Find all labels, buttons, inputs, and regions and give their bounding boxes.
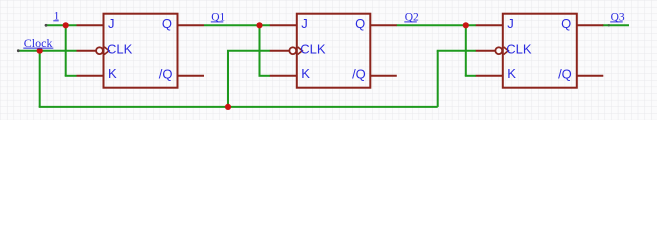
U3 pin Q output <box>577 24 604 26</box>
U1 pin CLK inversion bubble <box>96 47 103 54</box>
net label 1 <box>53 11 59 23</box>
U2 pin Q output <box>370 24 397 26</box>
U3 pin CLK inversion bubble <box>495 47 502 54</box>
wire Clock vertical to bottom bus <box>39 51 41 107</box>
U2 pin CLK input line <box>270 50 290 52</box>
JK flip-flop U1 body <box>77 14 205 88</box>
junction dot Q1 <box>256 22 262 28</box>
JK flip-flop U3 body <box>476 14 604 88</box>
wire Q1 to K2 <box>259 75 271 77</box>
JK flip-flop U2 body <box>270 14 397 88</box>
U3 body outline <box>503 14 577 88</box>
wire Q2 to J3 <box>397 24 477 26</box>
junction dot Clock at CLK1 <box>37 48 43 54</box>
junction dot Q2 <box>463 22 469 28</box>
junction dot Clock bus <box>225 104 231 110</box>
net label Q2 <box>404 11 419 23</box>
svg-text:Q: Q <box>162 16 172 31</box>
wire Q3 output stub <box>603 24 630 26</box>
wire Q2 to K3 <box>465 75 476 77</box>
svg-text:CLK: CLK <box>300 42 326 57</box>
U1 pin /Q output <box>178 75 205 77</box>
wire Q1 vertical drop to K2 row <box>259 25 261 76</box>
svg-text:/Q: /Q <box>352 66 366 81</box>
wire to CLK2 pin <box>227 50 270 52</box>
wire Clock bus riser to CLK3 <box>437 51 439 107</box>
svg-text:K: K <box>108 66 117 81</box>
U1 pin J input <box>77 24 104 26</box>
U1 pin CLK input line <box>77 50 97 52</box>
U2 pin /Q output <box>370 75 397 77</box>
U1 body outline <box>104 14 178 88</box>
net label Q1 <box>211 11 226 23</box>
wire end marker net 1 <box>45 24 48 27</box>
wire net 1 to J1 <box>46 24 77 26</box>
net label Q3 <box>610 11 625 23</box>
wire Q1 to J2 <box>204 24 270 26</box>
svg-text:J: J <box>108 16 115 31</box>
U2 pin K input <box>270 75 297 77</box>
svg-text:J: J <box>507 16 514 31</box>
net label Clock <box>23 36 53 50</box>
wire end marker Clock <box>17 49 20 52</box>
svg-text:CLK: CLK <box>506 42 532 57</box>
svg-text:/Q: /Q <box>159 66 173 81</box>
U2 clock edge triangle <box>298 47 303 55</box>
wire Clock bus riser to CLK2 <box>227 51 229 107</box>
svg-text:J: J <box>301 16 308 31</box>
junction dot net 1 <box>63 22 69 28</box>
wire Clock bottom bus <box>39 106 438 108</box>
svg-text:/Q: /Q <box>558 66 572 81</box>
wire Clock to CLK1 <box>18 50 76 52</box>
svg-text:K: K <box>301 66 310 81</box>
wire to CLK3 pin <box>437 50 476 52</box>
U3 clock edge triangle <box>504 47 509 55</box>
U2 pin CLK inversion bubble <box>289 47 296 54</box>
U3 pin CLK input line <box>476 50 496 52</box>
wire net 1 vertical drop to K1 row <box>65 25 67 76</box>
U3 pin /Q output <box>577 75 604 77</box>
U1 clock edge triangle <box>104 47 109 55</box>
U2 body outline <box>297 14 371 88</box>
U3 pin K input <box>476 75 503 77</box>
wire vertex marker Q3 <box>608 24 610 26</box>
svg-text:CLK: CLK <box>107 42 133 57</box>
U3 pin J input <box>476 24 503 26</box>
wire net 1 to K1 <box>65 75 77 77</box>
U1 pin K input <box>77 75 104 77</box>
U1 pin Q output <box>178 24 205 26</box>
U2 pin J input <box>270 24 297 26</box>
svg-text:Q: Q <box>561 16 571 31</box>
svg-text:Q: Q <box>355 16 365 31</box>
wire Q2 vertical drop to K3 row <box>465 25 467 76</box>
svg-text:K: K <box>507 66 516 81</box>
